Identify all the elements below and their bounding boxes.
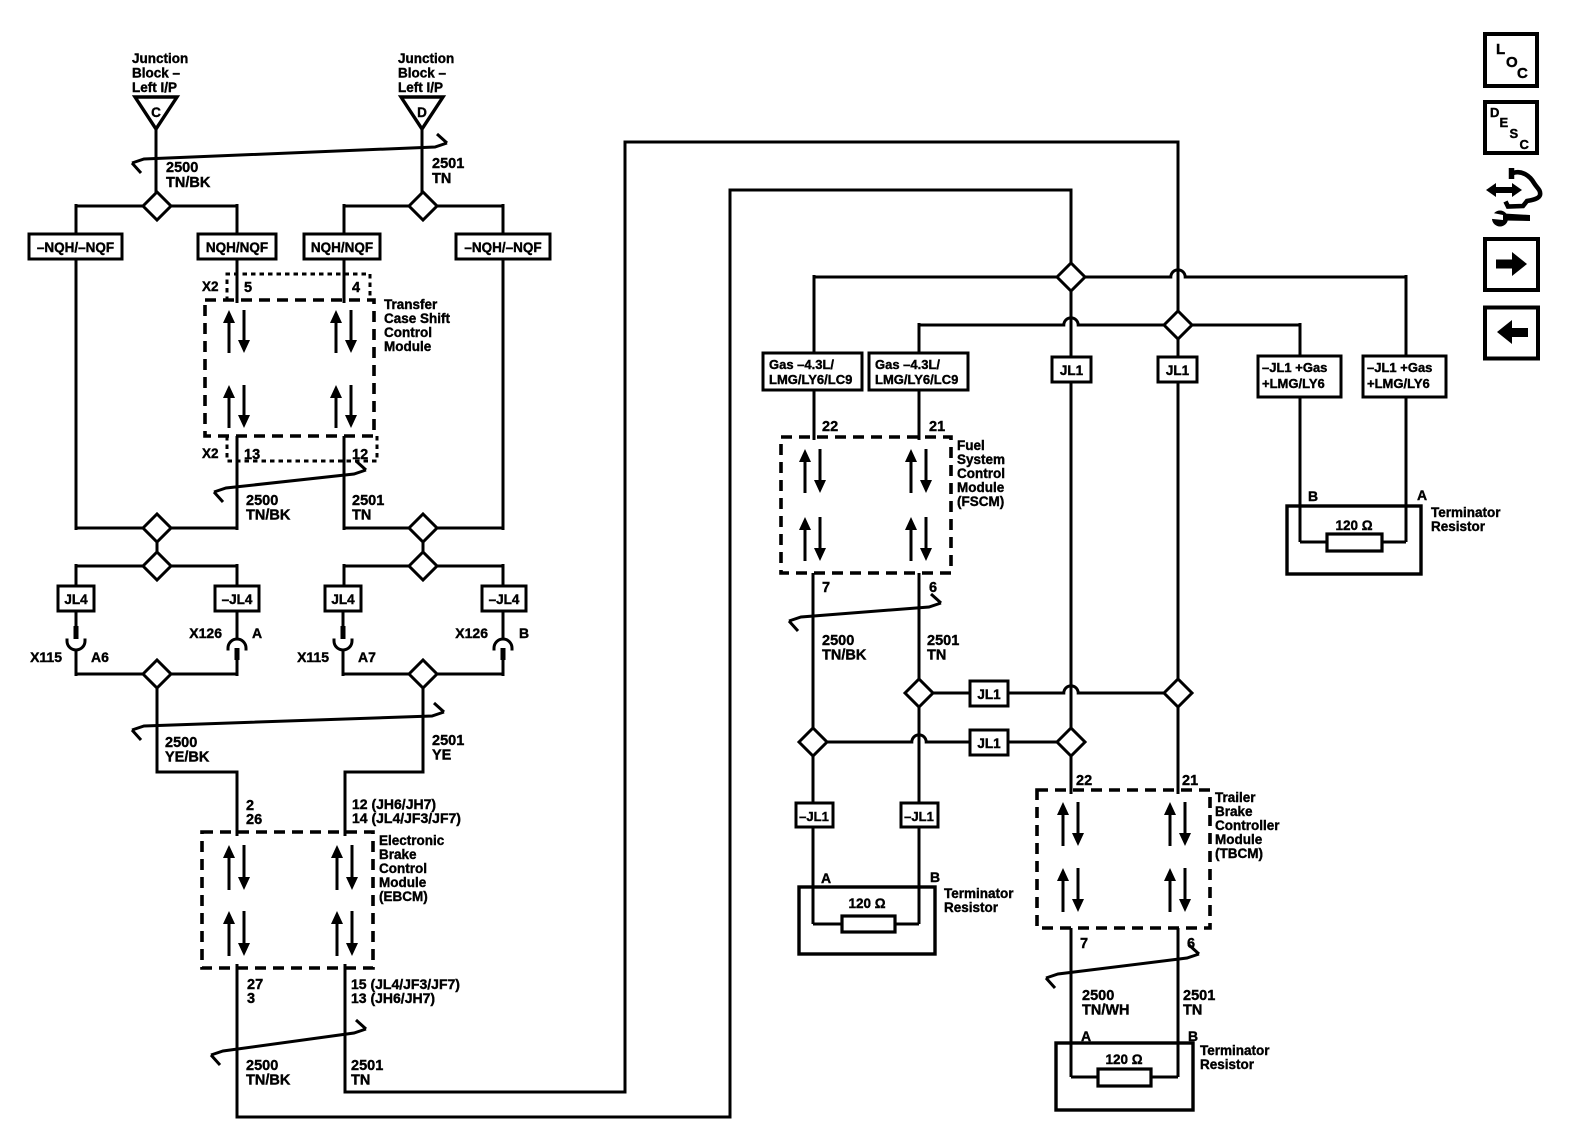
wire: diamond stack link left — [156, 528, 159, 566]
serial data arrows TBCM right lower — [1164, 868, 1191, 912]
svg-text:Resistor: Resistor — [1431, 519, 1486, 534]
svg-text:TN: TN — [432, 171, 451, 187]
svg-text:(EBCM): (EBCM) — [379, 889, 428, 904]
junction diamond x1178 y325 — [1164, 311, 1192, 339]
wire: y277 down to Gas box 1 — [813, 275, 816, 355]
wire: splice bus y566 left — [76, 565, 237, 568]
resistor R2: terminator resistor housing (right) — [1287, 506, 1421, 574]
svg-text:C: C — [151, 105, 161, 120]
resistor R1 value 120 ohm — [848, 896, 885, 911]
option label box JL4 (mid right) — [325, 586, 361, 611]
svg-text:C: C — [1517, 65, 1528, 82]
value label: circuit 2500 TN/BK — [166, 160, 211, 191]
svg-text:JL4: JL4 — [331, 592, 355, 607]
option label box -JL4 (mid left) — [215, 586, 259, 611]
resistor R3: terminator resistor housing (bottom) — [1056, 1043, 1193, 1110]
svg-text:TN/BK: TN/BK — [246, 1073, 291, 1089]
svg-text:Terminator: Terminator — [1200, 1043, 1270, 1058]
pin 22 (TBCM) — [1076, 773, 1092, 789]
wire: y674 diamond to EBCM pin 12 corner — [345, 674, 423, 836]
svg-text:Block –: Block – — [398, 66, 447, 81]
svg-text:Left I/P: Left I/P — [398, 80, 443, 95]
option label box -JL1 +Gas +LMG/LY6 (right) — [1363, 356, 1446, 397]
connector X2 strip (bottom) of transfer case module — [227, 436, 377, 461]
value label: circuit 2501 TN below TCCM — [352, 493, 384, 524]
wire: TBCM pin 7 to terminator A — [1070, 928, 1073, 1077]
svg-text:Electronic: Electronic — [379, 833, 445, 848]
svg-text:14 (JL4/JF3/JF7): 14 (JL4/JF3/JF7) — [352, 810, 461, 826]
crossover arrow below TBCM — [1046, 945, 1199, 988]
option label box Gas -4.3L/LMG/LY6/LC9 (left) — [763, 353, 862, 390]
svg-text:Module: Module — [1215, 832, 1263, 847]
svg-text:A: A — [252, 625, 262, 641]
svg-text:2500: 2500 — [166, 160, 198, 176]
wire: y325 down to Gas box 2 — [918, 323, 921, 355]
connector X115 label (right) — [297, 649, 329, 665]
option label box NQH/NQF (right) — [304, 234, 380, 259]
svg-text:120 Ω: 120 Ω — [1335, 518, 1372, 533]
svg-text:TN/BK: TN/BK — [246, 508, 291, 524]
svg-text:7: 7 — [1080, 936, 1088, 952]
svg-text:22: 22 — [822, 419, 838, 435]
pin A6 label — [91, 649, 109, 665]
module U4: Trailer Brake Controller Module dashed box — [1037, 790, 1210, 928]
wire: FSCM pin 6 down to -JL1 — [918, 573, 921, 805]
option label box -NQH/-NQF (right) — [456, 234, 550, 259]
module U3 name text — [957, 438, 1005, 509]
svg-text:22: 22 — [1076, 773, 1092, 789]
wire: bus x1071 down to TBCM pin 22 — [1070, 277, 1073, 794]
wire: Gas box1 to FSCM pin 22 — [813, 390, 816, 440]
wire: y566 to -JL4 (x237) — [236, 564, 239, 588]
svg-text:2501: 2501 — [432, 156, 464, 172]
option label box -NQH/-NQF (left) — [29, 234, 122, 259]
wire: -JL1 left to terminator A — [812, 827, 815, 924]
option label box NQH/NQF (left) — [198, 234, 276, 259]
svg-text:Resistor: Resistor — [1200, 1057, 1255, 1072]
svg-text:NQH/NQF: NQH/NQF — [311, 240, 373, 255]
serial data arrows FSCM right lower — [905, 517, 932, 561]
serial data arrows FSCM left lower — [799, 517, 826, 561]
option label box -JL1 +Gas +LMG/LY6 (left) — [1258, 356, 1341, 397]
pin 2 / 26 labels — [246, 798, 262, 828]
pin 21 (TBCM) — [1182, 773, 1198, 789]
svg-text:X115: X115 — [30, 649, 62, 665]
wire: FSCM pin 7 down to -JL1 — [812, 573, 815, 805]
pin A label — [252, 625, 262, 641]
svg-text:C: C — [1520, 137, 1530, 152]
value label: circuit 2500 TN/WH — [1082, 988, 1130, 1019]
wire: resistor R1 right lead — [893, 923, 919, 926]
value label: circuit 2500 YE/BK — [165, 735, 210, 766]
wire: bus to -NQH/-NQF box 1 — [75, 204, 78, 236]
junction diamond x1178 y693 — [1164, 679, 1192, 707]
pin 4 — [352, 280, 360, 296]
pin 7 (TBCM) — [1080, 936, 1088, 952]
wire: y566 to -JL4 (x503) — [502, 564, 505, 588]
svg-text:JL1: JL1 — [1060, 363, 1084, 378]
junction diamond x1071 y742 — [1057, 728, 1085, 756]
pin A label (right terminator) — [1417, 487, 1427, 503]
svg-text:Control: Control — [957, 466, 1005, 481]
svg-text:12: 12 — [352, 447, 368, 463]
wire: y566 to JL4 (x343) — [343, 564, 346, 588]
svg-text:–JL1 +Gas: –JL1 +Gas — [1262, 360, 1327, 375]
svg-text:TN/BK: TN/BK — [166, 175, 211, 191]
wire: box4 down long run — [502, 259, 505, 530]
serial data arrows FSCM left — [799, 449, 826, 493]
svg-text:21: 21 — [1182, 773, 1198, 789]
junction diamond x919 y693 — [905, 679, 933, 707]
wire: y674 diamond to EBCM pin 2 corner — [157, 674, 237, 836]
icon: wire-routing/wrench glyph — [1486, 168, 1540, 227]
svg-text:Module: Module — [384, 339, 432, 354]
wire: bus y325 with hop over x1071 — [919, 318, 1300, 325]
resistor R1 element — [842, 916, 895, 932]
pin 6 (TBCM) — [1187, 936, 1195, 952]
svg-text:Brake: Brake — [1215, 804, 1253, 819]
module U1: Transfer Case Shift Control Module dashed box — [205, 300, 374, 436]
svg-text:Resistor: Resistor — [944, 900, 999, 915]
svg-text:Controller: Controller — [1215, 818, 1280, 833]
wire: bus to NQH/NQF box 3 — [343, 204, 346, 236]
svg-text:X2: X2 — [202, 279, 219, 294]
serial data arrows TBCM left — [1057, 802, 1084, 846]
connector X115 pin A7 symbol — [334, 611, 352, 676]
crossover arrow below FSCM — [789, 594, 941, 631]
component name: Terminator Resistor (middle) — [944, 886, 1014, 915]
svg-text:YE: YE — [432, 748, 452, 764]
connector X126 label (right) — [455, 625, 488, 641]
wire: y566 to JL4 (x76) — [75, 564, 78, 588]
wire: bus to NQH/NQF box 2 — [236, 204, 239, 236]
wire: TCCM pin 12 down — [343, 436, 346, 530]
junction diamond x1071 y277 — [1057, 263, 1085, 291]
node: Junction Block - Left I/P (C) label — [132, 51, 188, 95]
svg-text:Case Shift: Case Shift — [384, 311, 451, 326]
wire: bus y693 to TBCM pin21 branch (hop over x1071) — [919, 686, 1178, 693]
pin B label (right terminator) — [1308, 488, 1318, 504]
svg-text:6: 6 — [929, 580, 937, 596]
wire: splice bus y528 left — [76, 527, 237, 530]
component name: Terminator Resistor (right) — [1431, 505, 1501, 534]
junction diamond right y528 — [409, 514, 437, 542]
wire: EBCM pin 27 to right bus (bottom route) — [237, 190, 1071, 1117]
junction diamond right y566 — [409, 552, 437, 580]
crossover arrow below TCCM — [214, 461, 366, 502]
svg-text:TN: TN — [927, 648, 946, 664]
wire: resistor R2 left lead — [1300, 541, 1329, 544]
off-page crossover arrow over circuits 2500/2501 — [132, 134, 447, 173]
pin label X2 (top) — [202, 279, 219, 294]
svg-text:X126: X126 — [455, 625, 488, 641]
svg-text:13 (JH6/JH7): 13 (JH6/JH7) — [351, 990, 435, 1006]
svg-text:13: 13 — [244, 447, 260, 463]
svg-text:26: 26 — [246, 812, 262, 828]
svg-text:L: L — [1496, 41, 1505, 58]
icon: forward arrow button — [1485, 239, 1538, 290]
wire: y277 down to -JL1+Gas box B — [1405, 275, 1408, 358]
svg-text:Junction: Junction — [398, 51, 454, 66]
svg-text:LMG/LY6/LC9: LMG/LY6/LC9 — [769, 372, 852, 387]
pin B label — [519, 625, 529, 641]
option label box -JL4 (far right) — [482, 586, 526, 611]
svg-text:Fuel: Fuel — [957, 438, 985, 453]
wire: splice bus right — [344, 205, 503, 208]
value label: circuit 2500 TN/BK below EBCM — [246, 1058, 291, 1089]
svg-text:Block –: Block – — [132, 66, 181, 81]
svg-text:B: B — [1308, 488, 1318, 504]
junction diamond at C splice — [143, 192, 171, 220]
icon: DESC button box — [1485, 102, 1537, 153]
junction diamond x813 y742 — [799, 728, 827, 756]
wire: box3 to TCCM pin 4 — [343, 259, 346, 303]
node: junction block connector triangle D — [401, 97, 443, 129]
svg-text:A6: A6 — [91, 649, 109, 665]
svg-text:JL4: JL4 — [64, 592, 88, 607]
node: Junction Block - Left I/P (D) label — [398, 51, 454, 95]
svg-text:A: A — [1417, 487, 1427, 503]
wire: splice bus y566 right — [344, 565, 503, 568]
wire: y325 down to -JL1+Gas box A — [1299, 323, 1302, 358]
svg-text:Terminator: Terminator — [944, 886, 1014, 901]
option label box JL1 on x1178 — [1158, 357, 1197, 382]
svg-text:120 Ω: 120 Ω — [1105, 1052, 1142, 1067]
pin 12/14 labels — [352, 796, 461, 826]
svg-text:–JL1: –JL1 — [799, 809, 829, 824]
pin 7 (FSCM) — [822, 580, 830, 596]
wire: bus x1178 down to TBCM pin 21 — [1177, 325, 1180, 794]
resistor R3 element — [1098, 1069, 1151, 1086]
option label box -JL1 (right) — [901, 803, 938, 827]
value label: circuit 2501 TN below TBCM — [1183, 988, 1215, 1019]
option label box JL4 (far left) — [58, 586, 94, 611]
serial data arrows FSCM right — [905, 449, 932, 493]
serial data arrows EBCM left lower — [223, 911, 250, 956]
svg-text:4: 4 — [352, 280, 360, 296]
crossover arrow above EBCM — [132, 703, 444, 740]
icon: back arrow button — [1485, 308, 1538, 359]
svg-text:E: E — [1500, 115, 1509, 130]
serial data arrows TBCM left lower — [1057, 868, 1084, 912]
svg-text:Terminator: Terminator — [1431, 505, 1501, 520]
junction diamond at D splice — [409, 192, 437, 220]
pin A label (bottom terminator) — [1081, 1028, 1091, 1044]
icon: LOC button box — [1485, 34, 1537, 86]
wire: triangle C to junction diamond — [155, 128, 158, 206]
svg-text:TN: TN — [351, 1073, 370, 1089]
wire: splice bus left — [76, 205, 237, 208]
value label: circuit 2501 TN — [432, 156, 464, 187]
wire: box A down to terminator B — [1299, 397, 1302, 542]
pin 6 (FSCM) — [929, 580, 937, 596]
serial data arrows EBCM right lower — [331, 911, 358, 956]
resistor R2 value 120 ohm — [1335, 518, 1372, 533]
serial data arrows TCCM left lower — [223, 385, 250, 428]
pin B label (mid terminator) — [930, 869, 940, 885]
junction diamond left y566 — [143, 552, 171, 580]
value label: circuit 2501 TN below FSCM — [927, 633, 959, 664]
option label box JL1 on y693 — [970, 681, 1008, 706]
svg-text:Gas –4.3L/: Gas –4.3L/ — [769, 357, 834, 372]
svg-text:–JL1 +Gas: –JL1 +Gas — [1367, 360, 1432, 375]
pin 22 (FSCM) — [822, 419, 838, 435]
connector X126 label (left) — [189, 625, 222, 641]
pin A7 label — [358, 649, 376, 665]
svg-text:7: 7 — [822, 580, 830, 596]
wire: splice bus y528 right — [344, 527, 503, 530]
wire: triangle D to junction diamond — [421, 128, 424, 206]
svg-text:A7: A7 — [358, 649, 376, 665]
module U3: Fuel System Control Module dashed box — [781, 437, 951, 573]
wire: TCCM pin 13 down — [236, 436, 239, 530]
svg-text:Control: Control — [379, 861, 427, 876]
module U2: Electronic Brake Control Module dashed box — [202, 832, 373, 968]
wire: splice bus y674 left — [76, 673, 237, 676]
pin label X2 (bottom) — [202, 446, 219, 461]
svg-text:120 Ω: 120 Ω — [848, 896, 885, 911]
pin B label (bottom terminator) — [1188, 1028, 1198, 1044]
wire: resistor R3 right lead — [1149, 1076, 1178, 1079]
svg-text:D: D — [1490, 105, 1499, 120]
svg-text:Brake: Brake — [379, 847, 417, 862]
svg-text:JL1: JL1 — [1166, 363, 1190, 378]
pin 15/13 labels — [351, 976, 460, 1006]
component name: Terminator Resistor (bottom) — [1200, 1043, 1270, 1072]
junction diamond right y674 — [409, 660, 437, 688]
wire: splice bus y674 right — [344, 673, 503, 676]
wire: box1 down long run — [75, 259, 78, 530]
connector X115 label (left) — [30, 649, 62, 665]
svg-text:5: 5 — [244, 280, 252, 296]
svg-text:–JL4: –JL4 — [222, 592, 253, 607]
svg-text:LMG/LY6/LC9: LMG/LY6/LC9 — [875, 372, 958, 387]
option label box JL1 on y742 — [970, 730, 1008, 755]
svg-text:D: D — [417, 105, 427, 120]
module U4 name text — [1215, 790, 1280, 861]
svg-text:+LMG/LY6: +LMG/LY6 — [1367, 376, 1430, 391]
svg-text:B: B — [930, 869, 940, 885]
wire: TBCM pin 6 to terminator B — [1177, 928, 1180, 1077]
pin 27 / 3 labels — [247, 977, 263, 1007]
serial data arrows EBCM left — [223, 845, 250, 890]
value label: circuit 2500 TN/BK below FSCM — [822, 633, 867, 664]
svg-text:(TBCM): (TBCM) — [1215, 846, 1263, 861]
svg-text:TN: TN — [1183, 1003, 1202, 1019]
wire: resistor R1 left lead — [813, 923, 844, 926]
svg-text:TN/BK: TN/BK — [822, 648, 867, 664]
node: junction block connector triangle C — [135, 97, 177, 129]
module U1 name text — [384, 297, 451, 354]
svg-text:X115: X115 — [297, 649, 329, 665]
pin 12 — [352, 447, 368, 463]
wire: EBCM pin 15 to right bus (top route) — [345, 142, 1178, 1092]
svg-text:(FSCM): (FSCM) — [957, 494, 1004, 509]
wire: box2 to TCCM pin 5 — [236, 259, 239, 303]
svg-text:–JL1: –JL1 — [904, 809, 934, 824]
crossover arrow below EBCM — [211, 1020, 366, 1065]
module U2 name text — [379, 833, 445, 904]
svg-text:X2: X2 — [202, 446, 219, 461]
option label box JL1 on x1071 — [1052, 357, 1091, 382]
wire: bus to -NQH/-NQF box 4 — [502, 204, 505, 236]
resistor R3 value 120 ohm — [1105, 1052, 1142, 1067]
resistor R1: terminator resistor housing (middle) — [799, 887, 935, 954]
serial data arrows TBCM right — [1164, 802, 1191, 846]
svg-text:JL1: JL1 — [977, 687, 1001, 702]
svg-text:Gas –4.3L/: Gas –4.3L/ — [875, 357, 940, 372]
svg-text:+LMG/LY6: +LMG/LY6 — [1262, 376, 1325, 391]
pin 21 (FSCM) — [929, 419, 945, 435]
svg-text:YE/BK: YE/BK — [165, 750, 210, 766]
svg-text:NQH/NQF: NQH/NQF — [206, 240, 268, 255]
svg-text:Junction: Junction — [132, 51, 188, 66]
resistor R2 element — [1327, 534, 1382, 551]
svg-text:Control: Control — [384, 325, 432, 340]
connector X115 pin A6 symbol — [67, 611, 85, 676]
svg-text:System: System — [957, 452, 1005, 467]
svg-text:–NQH/–NQF: –NQH/–NQF — [464, 240, 541, 255]
svg-text:TN: TN — [352, 508, 371, 524]
wire: resistor R2 right lead — [1380, 541, 1406, 544]
wire: box B down to terminator A — [1405, 397, 1408, 542]
svg-text:X126: X126 — [189, 625, 222, 641]
svg-text:B: B — [519, 625, 529, 641]
svg-text:Trailer: Trailer — [1215, 790, 1256, 805]
value label: circuit 2500 TN/BK below TCCM — [246, 493, 291, 524]
pin 5 — [244, 280, 252, 296]
svg-text:3: 3 — [247, 991, 255, 1007]
svg-text:S: S — [1510, 126, 1519, 141]
wire: Gas box2 to FSCM pin 21 — [918, 390, 921, 440]
wire: resistor R3 left lead — [1071, 1076, 1100, 1079]
value label: circuit 2501 YE — [432, 733, 464, 764]
serial data arrows TCCM left — [223, 310, 250, 353]
serial data arrows TCCM right lower — [330, 385, 357, 428]
serial data arrows TCCM right — [330, 310, 357, 353]
junction diamond left y528 — [143, 514, 171, 542]
serial data arrows EBCM right — [331, 845, 358, 890]
wire: bus y277 with hop over x1178 — [814, 270, 1406, 277]
value label: circuit 2501 TN below EBCM — [351, 1058, 383, 1089]
svg-text:JL1: JL1 — [977, 736, 1001, 751]
svg-text:–NQH/–NQF: –NQH/–NQF — [37, 240, 114, 255]
svg-text:21: 21 — [929, 419, 945, 435]
svg-text:Module: Module — [957, 480, 1005, 495]
svg-text:Module: Module — [379, 875, 427, 890]
svg-text:Transfer: Transfer — [384, 297, 438, 312]
wire: diamond stack link right — [422, 528, 425, 566]
wire: bus y742 to TBCM pin22 branch (hop over x919) — [813, 735, 1071, 742]
svg-text:Left I/P: Left I/P — [132, 80, 177, 95]
junction diamond left y674 — [143, 660, 171, 688]
connector X126 pin A symbol — [228, 611, 246, 676]
connector X126 pin B symbol — [494, 611, 512, 676]
pin A label (mid terminator) — [821, 870, 831, 886]
connector X2 strip (top) of transfer case module — [227, 274, 370, 301]
option label box Gas -4.3L/LMG/LY6/LC9 (right) — [869, 353, 968, 390]
wire: -JL1 right to terminator B — [918, 827, 921, 924]
svg-text:A: A — [821, 870, 831, 886]
pin 13 — [244, 447, 260, 463]
svg-text:–JL4: –JL4 — [489, 592, 520, 607]
option label box -JL1 (left) — [796, 803, 833, 827]
svg-text:TN/WH: TN/WH — [1082, 1003, 1130, 1019]
